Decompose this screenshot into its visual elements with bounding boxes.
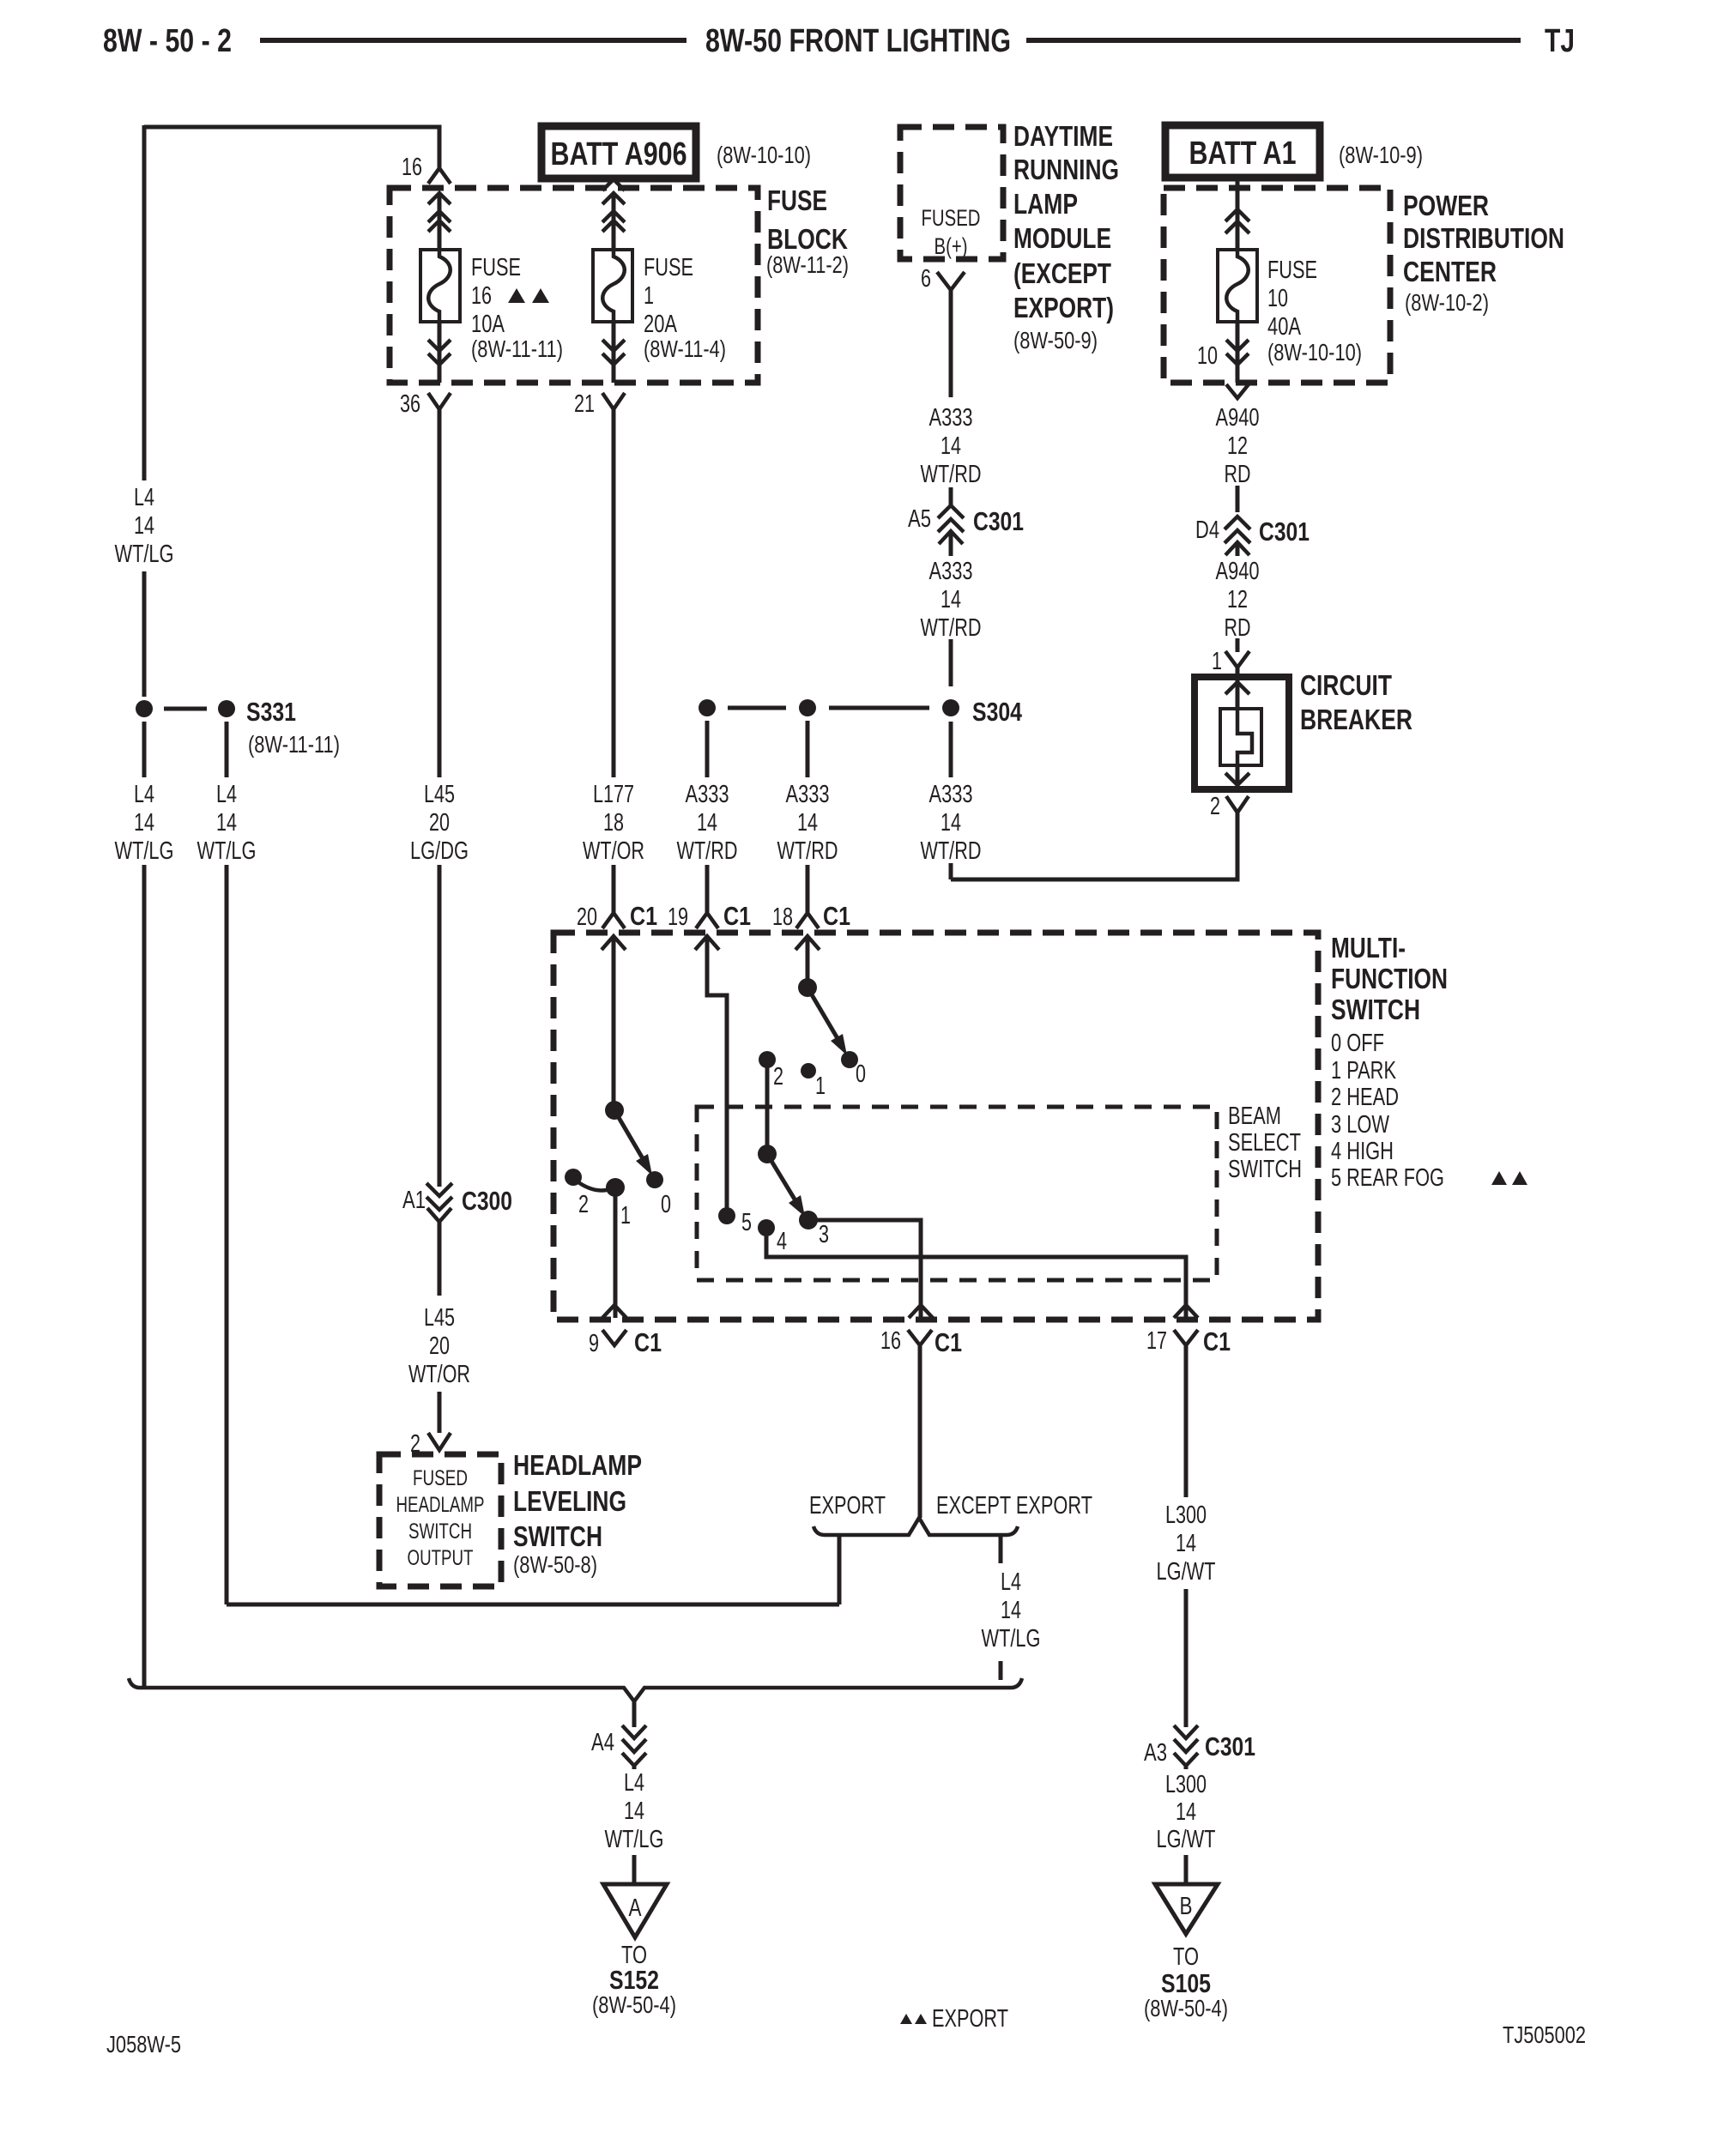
svg-text:OUTPUT: OUTPUT bbox=[408, 1546, 474, 1570]
svg-text:14: 14 bbox=[941, 432, 961, 460]
wire label L45 20 WT/OR bbox=[408, 1304, 470, 1433]
svg-text:14: 14 bbox=[797, 809, 818, 837]
svg-text:20A: 20A bbox=[644, 311, 677, 338]
wire w5 A333 (S304 to MFS pin 19) bbox=[677, 721, 738, 912]
svg-text:14: 14 bbox=[216, 809, 237, 837]
svg-text:FUSED: FUSED bbox=[922, 205, 981, 231]
headlamp switch contact 2 bbox=[565, 1169, 589, 1218]
svg-text:LG/DG: LG/DG bbox=[410, 837, 469, 865]
svg-text:A940: A940 bbox=[1216, 404, 1260, 432]
svg-text:14: 14 bbox=[1176, 1530, 1196, 1557]
wire label A333 14 WT/RD (w7 mid) bbox=[921, 558, 982, 642]
svg-text:S331: S331 bbox=[246, 697, 296, 727]
wire export branch bbox=[838, 1535, 842, 1604]
beam switch contact 1 bbox=[801, 1063, 826, 1100]
svg-text:HEADLAMP: HEADLAMP bbox=[513, 1449, 642, 1481]
svg-text:SELECT: SELECT bbox=[1228, 1129, 1301, 1157]
svg-text:14: 14 bbox=[1176, 1798, 1196, 1826]
wire label L300 14 LG/WT (lower) bbox=[1157, 1771, 1216, 1884]
footer sheet code bbox=[1503, 2021, 1586, 2048]
svg-text:DAYTIME: DAYTIME bbox=[1013, 120, 1113, 152]
svg-text:14: 14 bbox=[697, 809, 717, 837]
svg-text:(8W-50-4): (8W-50-4) bbox=[592, 1991, 676, 2018]
svg-text:A333: A333 bbox=[686, 781, 729, 808]
connector pin 17 C1 (MFS bottom) bbox=[1146, 1326, 1231, 1356]
svg-text:D4: D4 bbox=[1195, 517, 1219, 544]
wire w3 (L45) bbox=[438, 409, 442, 1187]
svg-text:A333: A333 bbox=[929, 404, 973, 432]
wire headlamp leveling output run bbox=[227, 1603, 839, 1607]
beam switch contact 0 bbox=[841, 1051, 866, 1088]
svg-text:16: 16 bbox=[402, 154, 422, 181]
svg-text:14: 14 bbox=[134, 809, 154, 837]
svg-text:14: 14 bbox=[134, 512, 154, 540]
svg-text:FUSE: FUSE bbox=[1267, 257, 1317, 284]
svg-text:1 PARK: 1 PARK bbox=[1331, 1057, 1396, 1085]
svg-text:12: 12 bbox=[1227, 432, 1248, 460]
wire pin 17 drop (L300) bbox=[1157, 1345, 1216, 1727]
connector pin 19 C1 (MFS top) bbox=[668, 896, 751, 950]
svg-text:TJ: TJ bbox=[1545, 23, 1575, 59]
wire w7 A333 (DRL drop) bbox=[949, 290, 953, 879]
connector pin 1 (circuit breaker) bbox=[1212, 648, 1249, 677]
headlamp switch wiper arm bbox=[614, 1110, 652, 1175]
svg-text:LEVELING: LEVELING bbox=[513, 1485, 626, 1517]
svg-text:1: 1 bbox=[1212, 648, 1222, 675]
fuse 10 40A bbox=[1218, 250, 1362, 366]
svg-text:(8W-50-9): (8W-50-9) bbox=[1013, 327, 1098, 353]
headlamp switch contact 1 bbox=[575, 1178, 631, 1230]
svg-text:L4: L4 bbox=[216, 781, 237, 808]
svg-text:12: 12 bbox=[1227, 586, 1248, 613]
svg-text:SWITCH: SWITCH bbox=[408, 1520, 472, 1544]
connector pin 21 (fuse block bottom) bbox=[574, 322, 625, 418]
svg-text:40A: 40A bbox=[1267, 313, 1301, 341]
svg-text:0: 0 bbox=[856, 1060, 866, 1088]
off-page triangle A bbox=[592, 1884, 676, 2018]
svg-text:S105: S105 bbox=[1161, 1968, 1211, 1998]
beam switch contact 2 bbox=[759, 1051, 783, 1091]
svg-text:B: B bbox=[1180, 1893, 1193, 1920]
wire contact 2 to lower common bbox=[758, 1060, 777, 1163]
svg-text:L4: L4 bbox=[624, 1769, 644, 1797]
multi-function switch box bbox=[553, 932, 1527, 1320]
svg-text:MODULE: MODULE bbox=[1013, 222, 1111, 254]
svg-text:EXPORT: EXPORT bbox=[932, 2005, 1008, 2033]
svg-text:BATT A1: BATT A1 bbox=[1189, 136, 1297, 172]
svg-text:C1: C1 bbox=[630, 901, 657, 931]
headlamp switch common (pin 20 drop) bbox=[605, 936, 624, 1120]
svg-text:BATT A906: BATT A906 bbox=[551, 136, 687, 172]
wire label L177 18 WT/OR bbox=[583, 781, 644, 865]
svg-text:RD: RD bbox=[1225, 461, 1251, 488]
fuse 1 20A bbox=[593, 250, 726, 362]
svg-text:2: 2 bbox=[773, 1063, 783, 1091]
svg-text:SWITCH: SWITCH bbox=[513, 1520, 602, 1552]
svg-text:2 HEAD: 2 HEAD bbox=[1331, 1084, 1399, 1111]
svg-text:CENTER: CENTER bbox=[1403, 256, 1497, 287]
svg-text:L4: L4 bbox=[1001, 1568, 1021, 1596]
bus merge brace bbox=[129, 1678, 1022, 1701]
svg-text:4 HIGH: 4 HIGH bbox=[1331, 1138, 1394, 1165]
svg-text:FUNCTION: FUNCTION bbox=[1331, 963, 1448, 994]
wire pin 16 to export brace bbox=[918, 1345, 922, 1518]
svg-text:21: 21 bbox=[574, 390, 595, 418]
svg-text:WT/LG: WT/LG bbox=[982, 1625, 1041, 1653]
svg-text:CIRCUIT: CIRCUIT bbox=[1300, 669, 1392, 701]
svg-text:FUSE: FUSE bbox=[471, 254, 521, 281]
svg-text:4: 4 bbox=[777, 1228, 787, 1255]
svg-text:BLOCK: BLOCK bbox=[767, 223, 848, 255]
svg-text:L45: L45 bbox=[424, 1304, 455, 1332]
connector pin 2 (circuit breaker bottom) bbox=[1210, 793, 1249, 820]
svg-text:A940: A940 bbox=[1216, 558, 1260, 585]
svg-text:(8W-11-11): (8W-11-11) bbox=[248, 731, 340, 758]
svg-text:LG/WT: LG/WT bbox=[1157, 1558, 1216, 1586]
headlamp leveling switch box bbox=[379, 1449, 642, 1586]
svg-text:EXCEPT EXPORT: EXCEPT EXPORT bbox=[936, 1492, 1092, 1520]
connector pin 6 (DRL module) bbox=[921, 265, 965, 293]
wire label L4 14 WT/LG (A4 drop) bbox=[605, 1769, 664, 1884]
svg-text:0: 0 bbox=[661, 1191, 671, 1218]
svg-text:RUNNING: RUNNING bbox=[1013, 154, 1119, 185]
svg-text:SWITCH: SWITCH bbox=[1331, 994, 1420, 1025]
svg-text:L177: L177 bbox=[593, 781, 634, 808]
svg-text:10: 10 bbox=[1197, 342, 1218, 370]
svg-text:8W - 50 - 2: 8W - 50 - 2 bbox=[103, 23, 232, 59]
wire circuit breaker to S304 bbox=[951, 813, 1237, 879]
svg-text:(8W-50-4): (8W-50-4) bbox=[1144, 1995, 1228, 2021]
svg-text:WT/RD: WT/RD bbox=[921, 461, 982, 488]
connector (BATT A906 to fuse block) bbox=[602, 179, 625, 250]
svg-text:2: 2 bbox=[578, 1191, 589, 1218]
svg-text:C301: C301 bbox=[1259, 517, 1310, 547]
svg-text:WT/RD: WT/RD bbox=[921, 837, 982, 865]
svg-text:5 REAR FOG: 5 REAR FOG bbox=[1331, 1164, 1444, 1192]
svg-text:(EXCEPT: (EXCEPT bbox=[1013, 257, 1111, 289]
svg-text:14: 14 bbox=[941, 809, 961, 837]
svg-text:A1: A1 bbox=[402, 1187, 426, 1214]
svg-text:10A: 10A bbox=[471, 311, 505, 338]
export / except-export brace bbox=[809, 1492, 1092, 1535]
svg-text:14: 14 bbox=[941, 586, 961, 613]
wire w8 A940 bbox=[1236, 486, 1240, 652]
connector pin 16 (fuse block top) bbox=[402, 154, 451, 250]
footer export legend bbox=[900, 2005, 1008, 2033]
svg-text:FUSE: FUSE bbox=[767, 184, 827, 216]
svg-text:A: A bbox=[629, 1894, 643, 1922]
wire contact 3 to pin 16 bbox=[808, 1220, 933, 1318]
svg-text:L300: L300 bbox=[1165, 1771, 1207, 1798]
wire pin 19 to contact 5 bbox=[707, 936, 727, 1216]
connector A4 bbox=[591, 1701, 646, 1769]
svg-text:18: 18 bbox=[603, 809, 624, 837]
connector pin 10 (PDC bottom) bbox=[1197, 322, 1249, 398]
svg-text:36: 36 bbox=[400, 390, 420, 418]
svg-text:WT/LG: WT/LG bbox=[605, 1826, 664, 1853]
svg-text:C1: C1 bbox=[1203, 1326, 1231, 1356]
svg-text:A5: A5 bbox=[908, 505, 931, 533]
svg-text:C1: C1 bbox=[935, 1327, 962, 1357]
svg-text:MULTI-: MULTI- bbox=[1331, 932, 1406, 964]
beam switch lower wiper arm bbox=[767, 1154, 805, 1217]
footer drawing number bbox=[106, 2031, 181, 2057]
wire label L4 14 WT/LG (w1 lower) bbox=[115, 781, 174, 865]
wire label A333 14 WT/RD (w7 lower) bbox=[921, 781, 982, 865]
connector pin 18 C1 (MFS top) bbox=[772, 896, 850, 950]
svg-text:3 LOW: 3 LOW bbox=[1331, 1111, 1389, 1139]
svg-text:8W-50 FRONT LIGHTING: 8W-50 FRONT LIGHTING bbox=[705, 23, 1011, 59]
connector pin 16 C1 (MFS bottom) bbox=[880, 1327, 962, 1357]
svg-text:C1: C1 bbox=[823, 901, 850, 931]
fuse block dashed box bbox=[390, 184, 849, 383]
wire label A333 14 WT/RD (w7 upper) bbox=[921, 404, 982, 488]
beam switch upper wiper arm bbox=[808, 988, 847, 1055]
svg-text:WT/LG: WT/LG bbox=[197, 837, 257, 865]
svg-text:A4: A4 bbox=[591, 1729, 614, 1756]
svg-text:(8W-10-2): (8W-10-2) bbox=[1405, 289, 1489, 316]
beam switch contact 3 bbox=[799, 1211, 829, 1248]
svg-text:WT/RD: WT/RD bbox=[921, 614, 982, 642]
svg-text:BREAKER: BREAKER bbox=[1300, 704, 1412, 735]
svg-text:LG/WT: LG/WT bbox=[1157, 1826, 1216, 1853]
connector pin 20 C1 (MFS top) bbox=[577, 896, 657, 950]
svg-text:1: 1 bbox=[815, 1072, 826, 1100]
svg-text:WT/RD: WT/RD bbox=[677, 837, 738, 865]
wire label L4 14 WT/LG (w1 upper) bbox=[115, 484, 174, 568]
svg-text:L300: L300 bbox=[1165, 1501, 1207, 1529]
connector pin 36 (fuse block bottom) bbox=[400, 322, 451, 418]
svg-text:S304: S304 bbox=[972, 697, 1023, 727]
off-page triangle B bbox=[1144, 1884, 1228, 2021]
svg-text:(8W-10-10): (8W-10-10) bbox=[717, 142, 811, 168]
svg-text:RD: RD bbox=[1225, 614, 1251, 642]
svg-text:POWER: POWER bbox=[1403, 190, 1489, 221]
battery feed box BATT A1 bbox=[1165, 125, 1423, 178]
svg-text:C300: C300 bbox=[462, 1186, 512, 1216]
svg-text:(8W-50-8): (8W-50-8) bbox=[513, 1551, 597, 1578]
svg-text:EXPORT): EXPORT) bbox=[1013, 292, 1114, 323]
wire w6 A333 (S304 to MFS pin 18) bbox=[777, 721, 838, 912]
circuit breaker bbox=[1195, 669, 1412, 789]
svg-text:6: 6 bbox=[921, 265, 931, 293]
beam switch common (pin 18 drop) bbox=[798, 936, 817, 997]
svg-text:20: 20 bbox=[429, 1332, 450, 1360]
svg-text:SWITCH: SWITCH bbox=[1228, 1156, 1302, 1183]
svg-text:C1: C1 bbox=[634, 1327, 662, 1357]
wire w8 inside PDC bbox=[1225, 178, 1249, 250]
svg-text:20: 20 bbox=[429, 809, 450, 837]
svg-text:(8W-10-10): (8W-10-10) bbox=[1267, 339, 1362, 366]
svg-text:L45: L45 bbox=[424, 781, 455, 808]
wire label A940 12 RD (lower) bbox=[1216, 558, 1260, 642]
fuse 16 10A bbox=[420, 250, 563, 362]
wire top-left horizontal bbox=[144, 127, 439, 168]
svg-text:14: 14 bbox=[1001, 1597, 1021, 1624]
svg-text:A333: A333 bbox=[929, 558, 973, 585]
wire w4 (L177) bbox=[612, 409, 616, 912]
connector pin 2 (headlamp leveling switch) bbox=[410, 1430, 451, 1458]
connector C301 A3 bbox=[1144, 1725, 1255, 1769]
svg-text:9: 9 bbox=[589, 1330, 599, 1357]
wire L4 left vertical (w1) bbox=[142, 125, 147, 1688]
except-export dashed drop bbox=[982, 1536, 1041, 1680]
svg-text:C1: C1 bbox=[723, 901, 751, 931]
svg-text:TO: TO bbox=[1173, 1943, 1199, 1971]
svg-text:DISTRIBUTION: DISTRIBUTION bbox=[1403, 222, 1564, 254]
connector C301 D4 bbox=[1195, 517, 1310, 555]
power distribution center box bbox=[1164, 188, 1564, 383]
splice S331 bbox=[136, 697, 340, 758]
svg-text:0 OFF: 0 OFF bbox=[1331, 1030, 1384, 1057]
svg-text:A333: A333 bbox=[786, 781, 830, 808]
svg-text:FUSED: FUSED bbox=[413, 1466, 468, 1490]
svg-text:2: 2 bbox=[1210, 793, 1220, 820]
svg-text:5: 5 bbox=[741, 1209, 752, 1236]
svg-text:10: 10 bbox=[1267, 285, 1288, 312]
svg-text:(8W-11-2): (8W-11-2) bbox=[766, 251, 849, 278]
svg-text:16: 16 bbox=[471, 282, 492, 310]
svg-text:20: 20 bbox=[577, 903, 597, 931]
svg-text:LAMP: LAMP bbox=[1013, 188, 1078, 220]
wire w2 (S331 branch) bbox=[225, 722, 229, 1604]
svg-text:EXPORT: EXPORT bbox=[809, 1492, 886, 1520]
svg-text:14: 14 bbox=[624, 1798, 644, 1825]
splice S304 bbox=[699, 697, 1023, 727]
svg-text:(8W-11-4): (8W-11-4) bbox=[644, 335, 726, 362]
wire contact 1 to pin 9 bbox=[602, 1187, 626, 1318]
svg-text:WT/OR: WT/OR bbox=[408, 1361, 470, 1388]
svg-text:J058W-5: J058W-5 bbox=[106, 2031, 181, 2057]
svg-text:WT/OR: WT/OR bbox=[583, 837, 644, 865]
svg-text:A333: A333 bbox=[929, 781, 973, 808]
svg-text:WT/LG: WT/LG bbox=[115, 541, 174, 568]
svg-text:B(+): B(+) bbox=[935, 233, 968, 259]
svg-text:HEADLAMP: HEADLAMP bbox=[396, 1493, 485, 1517]
svg-text:C301: C301 bbox=[973, 506, 1024, 536]
connector C300 A1 bbox=[402, 1183, 512, 1296]
wire contact 4 to pin 17 bbox=[766, 1228, 1198, 1318]
headlamp switch contact 0 bbox=[646, 1171, 671, 1218]
battery feed box BATT A906 bbox=[541, 126, 811, 178]
daytime running lamp module box bbox=[900, 120, 1119, 353]
connector pin 9 C1 (MFS bottom) bbox=[589, 1327, 662, 1357]
wire label A940 12 RD (upper) bbox=[1216, 404, 1260, 488]
svg-text:FUSE: FUSE bbox=[644, 254, 693, 281]
connector C301 A5 bbox=[908, 505, 1024, 544]
svg-text:18: 18 bbox=[772, 903, 793, 931]
svg-text:S152: S152 bbox=[609, 1965, 659, 1995]
svg-text:BEAM: BEAM bbox=[1228, 1103, 1281, 1130]
svg-text:(8W-10-9): (8W-10-9) bbox=[1339, 142, 1423, 168]
svg-text:16: 16 bbox=[880, 1327, 901, 1355]
svg-text:TJ505002: TJ505002 bbox=[1503, 2021, 1586, 2048]
title header bbox=[103, 23, 1575, 59]
svg-text:19: 19 bbox=[668, 903, 688, 931]
beam select switch inner box bbox=[697, 1103, 1302, 1280]
svg-text:1: 1 bbox=[620, 1202, 631, 1230]
svg-text:3: 3 bbox=[819, 1221, 829, 1248]
svg-text:C301: C301 bbox=[1205, 1731, 1255, 1761]
svg-text:17: 17 bbox=[1146, 1327, 1167, 1355]
svg-text:L4: L4 bbox=[134, 484, 154, 511]
beam switch contact 4 bbox=[758, 1219, 787, 1255]
svg-text:WT/RD: WT/RD bbox=[777, 837, 838, 865]
wire label L4 14 WT/LG (w2) bbox=[197, 781, 257, 865]
wire label L45 20 LG/DG bbox=[410, 781, 469, 865]
svg-text:1: 1 bbox=[644, 282, 654, 310]
svg-text:A3: A3 bbox=[1144, 1739, 1167, 1767]
svg-text:WT/LG: WT/LG bbox=[115, 837, 174, 865]
beam switch contact 5 bbox=[718, 1207, 752, 1236]
svg-text:(8W-11-11): (8W-11-11) bbox=[471, 335, 563, 362]
svg-text:L4: L4 bbox=[134, 781, 154, 808]
